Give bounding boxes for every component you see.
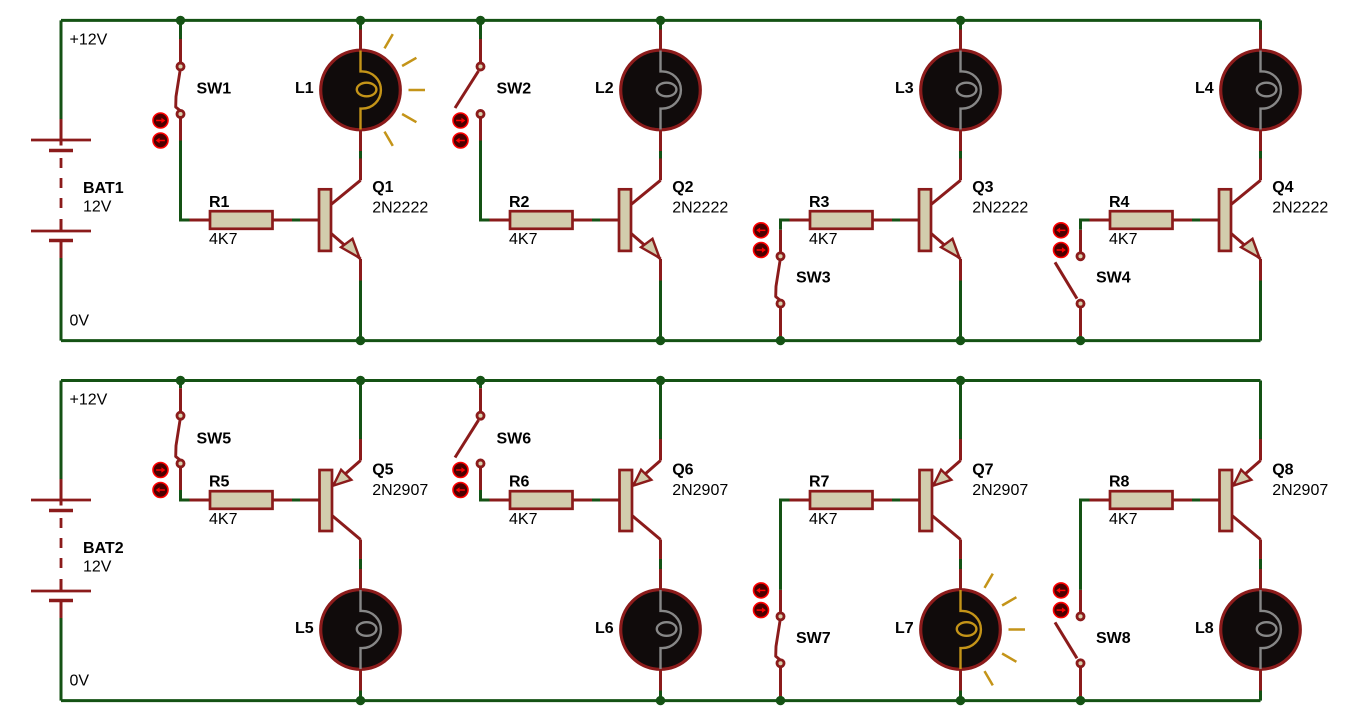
wire Q6 collector to lamp	[659, 559, 662, 569]
transistor Q4 collector lead	[1231, 180, 1261, 204]
switch SW3 terminal 2	[777, 300, 784, 307]
wire resistor to SW3	[781, 220, 790, 230]
transistor Q8 collector pin	[1259, 540, 1262, 560]
label Q6 value 2N2907	[672, 482, 728, 499]
label Q5 value 2N2907	[372, 482, 428, 499]
svg-text:SW6: SW6	[497, 430, 532, 447]
transistor Q3 base bar	[919, 189, 931, 251]
lamp L8 pin 2	[1259, 670, 1262, 691]
lamp L2 pin 2	[659, 130, 662, 151]
resistor R5 pin 1	[190, 499, 211, 502]
label SW7	[796, 630, 831, 647]
label 0V	[70, 313, 90, 330]
wire Q8 collector to lamp	[1259, 559, 1262, 569]
transistor Q3 emitter pin	[959, 259, 962, 281]
label Q1	[372, 179, 393, 196]
svg-text:L1: L1	[295, 80, 314, 97]
transistor Q6 base bar	[620, 470, 633, 531]
label R2 value 4K7	[509, 231, 538, 248]
push button SW6 up	[453, 463, 468, 478]
wire 0V rail (bottom circuit)	[61, 699, 1261, 702]
switch SW8 lever	[1055, 622, 1077, 658]
transistor Q7 collector pin	[959, 540, 962, 560]
svg-text:Q3: Q3	[972, 179, 993, 196]
svg-text:Q1: Q1	[372, 179, 393, 196]
wire L4 to collector	[1259, 151, 1262, 159]
resistor R1 pin 1	[190, 219, 211, 222]
label R8	[1109, 473, 1130, 490]
wire R8 to transistor base	[1192, 499, 1202, 502]
switch SW6 terminal 2	[477, 460, 484, 467]
switch SW7 lever	[776, 621, 780, 660]
label R7	[809, 473, 830, 490]
lamp L1 light rays	[385, 34, 426, 146]
svg-text:+12V: +12V	[70, 31, 108, 48]
push button SW7 up	[754, 583, 769, 598]
lamp L7 light rays	[985, 574, 1026, 686]
node L3 rail junction	[956, 16, 965, 25]
wire SW6 to resistor	[481, 490, 490, 500]
transistor Q4 emitter arrow	[1241, 239, 1260, 258]
wire Q4 emitter to 0V	[1259, 281, 1262, 341]
svg-text:12V: 12V	[83, 199, 112, 216]
switch SW2 lever	[455, 71, 479, 108]
label SW3	[796, 270, 831, 287]
transistor Q7 base pin	[900, 499, 920, 502]
svg-text:2N2907: 2N2907	[972, 482, 1028, 499]
node SW8 bottom rail junction	[1076, 696, 1085, 705]
resistor R1 pin 2	[273, 219, 293, 222]
transistor Q7 emitter lead	[932, 461, 961, 486]
lamp L3 pin 2	[959, 130, 962, 151]
svg-text:R7: R7	[809, 473, 830, 490]
transistor Q5 collector pin	[359, 540, 362, 560]
label Q1 value 2N2222	[372, 200, 428, 217]
wire rail to SW5	[179, 381, 182, 389]
lamp L3	[921, 50, 1001, 130]
node Q6 emitter rail junction	[656, 376, 665, 385]
label R6 value 4K7	[509, 511, 538, 528]
transistor Q2 collector pin	[659, 159, 662, 181]
label Q3	[972, 179, 993, 196]
wire L2 to collector	[659, 151, 662, 159]
transistor Q4 collector pin	[1259, 159, 1262, 181]
svg-text:2N2222: 2N2222	[672, 200, 728, 217]
transistor Q3 emitter lead	[931, 233, 961, 259]
label R2	[509, 194, 530, 211]
transistor Q1 emitter lead	[331, 233, 361, 259]
node SW2 top rail junction	[476, 16, 485, 25]
wire Q5 collector to lamp	[359, 559, 362, 569]
transistor Q7 collector lead	[932, 516, 961, 540]
label BAT1 value 12V	[83, 199, 112, 216]
lamp L5 pin 2	[359, 670, 362, 691]
label SW1	[197, 80, 232, 97]
node Q1 emitter rail junction	[356, 336, 365, 345]
label Q2 value 2N2222	[672, 200, 728, 217]
lamp L4 pin 2	[1259, 130, 1262, 151]
svg-text:L3: L3	[895, 80, 914, 97]
transistor Q7 emitter pin	[959, 439, 962, 461]
label Q8	[1272, 462, 1293, 479]
label R7 value 4K7	[809, 511, 838, 528]
label Q2	[672, 179, 693, 196]
node SW4 bottom rail junction	[1076, 336, 1085, 345]
wire R5 to transistor base	[292, 499, 302, 502]
switch SW5 terminal 1	[177, 412, 184, 419]
transistor Q7 emitter arrow	[933, 470, 951, 486]
svg-text:R4: R4	[1109, 194, 1130, 211]
label BAT2	[83, 540, 124, 557]
node L2 rail junction	[656, 16, 665, 25]
transistor Q5 collector lead	[332, 516, 361, 540]
push button SW8 down	[1054, 603, 1069, 618]
resistor R8 pin 1	[1090, 499, 1111, 502]
wire 0V rail (top circuit)	[61, 339, 1261, 342]
resistor R2 pin 2	[573, 219, 593, 222]
svg-text:R2: R2	[509, 194, 530, 211]
wire rail to L3	[959, 20, 962, 29]
resistor R2	[510, 211, 573, 229]
resistor R3	[810, 211, 873, 229]
svg-text:+12V: +12V	[70, 391, 108, 408]
label SW8	[1096, 630, 1131, 647]
svg-text:SW7: SW7	[796, 630, 831, 647]
label L2	[595, 80, 614, 97]
label Q8 value 2N2907	[1272, 482, 1328, 499]
push button SW7 down	[754, 603, 769, 618]
label Q6	[672, 462, 693, 479]
label SW5	[197, 430, 232, 447]
push button SW5 up	[153, 463, 168, 478]
label R8 value 4K7	[1109, 511, 1138, 528]
label Q4	[1272, 179, 1293, 196]
resistor R4 pin 2	[1173, 219, 1193, 222]
lamp L1	[321, 50, 401, 130]
node SW3 bottom rail junction	[776, 336, 785, 345]
transistor Q6 collector pin	[659, 540, 662, 560]
svg-text:2N2907: 2N2907	[672, 482, 728, 499]
svg-text:BAT1: BAT1	[83, 180, 124, 197]
label L7	[895, 620, 914, 637]
switch SW5 terminal 2	[177, 460, 184, 467]
transistor Q1 base pin	[300, 219, 319, 222]
wire rail to SW6	[479, 381, 482, 389]
switch SW4 terminal 2	[1077, 300, 1084, 307]
label L3	[895, 80, 914, 97]
wire SW2 to resistor	[481, 141, 490, 221]
switch SW8 pin 2	[1079, 668, 1082, 697]
transistor Q3 emitter arrow	[941, 239, 960, 258]
svg-text:2N2907: 2N2907	[372, 482, 428, 499]
transistor Q5 base bar	[320, 470, 333, 531]
label L4	[1195, 80, 1214, 97]
switch SW6 terminal 1	[477, 412, 484, 419]
push button SW3 down	[754, 243, 769, 258]
wire +12V rail (top circuit)	[61, 19, 1261, 22]
label R5 value 4K7	[209, 511, 238, 528]
label R3	[809, 194, 830, 211]
push button SW6 down	[453, 483, 468, 498]
transistor Q3 collector pin	[959, 159, 962, 181]
svg-text:4K7: 4K7	[509, 511, 538, 528]
label Q7	[972, 462, 993, 479]
wire rail to SW1	[179, 20, 182, 39]
resistor R8 pin 2	[1173, 499, 1193, 502]
switch SW2 pin 2	[479, 119, 482, 141]
lamp L4	[1221, 50, 1301, 130]
push button SW4 down	[1054, 243, 1069, 258]
node L7 rail junction	[956, 696, 965, 705]
switch SW6 pin 1	[479, 388, 482, 411]
battery BAT1	[31, 20, 91, 340]
wire Q1 emitter to 0V	[359, 281, 362, 341]
label +12V	[70, 31, 108, 48]
node Q7 emitter rail junction	[956, 376, 965, 385]
switch SW3 pin 1	[779, 230, 782, 252]
transistor Q4 base bar	[1219, 189, 1231, 251]
svg-text:4K7: 4K7	[1109, 231, 1138, 248]
wire SW1 to resistor	[181, 141, 190, 221]
label R4	[1109, 194, 1130, 211]
lamp L6 pin 2	[659, 670, 662, 691]
label R3 value 4K7	[809, 231, 838, 248]
lamp L7 pin 1	[959, 569, 962, 590]
switch SW3 terminal 1	[777, 253, 784, 260]
svg-text:SW4: SW4	[1096, 270, 1131, 287]
label 0V (bottom)	[70, 673, 90, 690]
transistor Q6 collector lead	[632, 516, 661, 540]
label R4 value 4K7	[1109, 231, 1138, 248]
svg-text:L5: L5	[295, 620, 314, 637]
switch SW7 terminal 2	[777, 660, 784, 667]
transistor Q8 emitter lead	[1232, 461, 1261, 486]
svg-text:BAT2: BAT2	[83, 540, 124, 557]
transistor Q2 emitter arrow	[641, 239, 660, 258]
transistor Q1 collector lead	[331, 180, 361, 204]
resistor R5 pin 2	[273, 499, 293, 502]
svg-text:2N2222: 2N2222	[1272, 200, 1328, 217]
switch SW4 pin 2	[1079, 308, 1082, 337]
push button SW5 down	[153, 483, 168, 498]
transistor Q2 base bar	[619, 189, 631, 251]
push button SW1 down	[153, 133, 168, 148]
transistor Q2 emitter lead	[631, 233, 661, 259]
switch SW7 pin 2	[779, 668, 782, 697]
switch SW5 pin 1	[179, 388, 182, 411]
switch SW4 pin 1	[1079, 230, 1082, 252]
svg-text:SW8: SW8	[1096, 630, 1131, 647]
label L5	[295, 620, 314, 637]
svg-text:Q6: Q6	[672, 462, 693, 479]
label L6	[595, 620, 614, 637]
lamp L7	[921, 590, 1001, 670]
label L8	[1195, 620, 1214, 637]
wire R1 to transistor base	[292, 219, 302, 222]
wire +12V to Q7 emitter	[959, 381, 962, 440]
resistor R2 pin 1	[490, 219, 511, 222]
svg-text:Q5: Q5	[372, 462, 393, 479]
svg-text:12V: 12V	[83, 559, 112, 576]
resistor R6	[510, 491, 573, 509]
transistor Q5 base pin	[300, 499, 320, 502]
svg-text:Q8: Q8	[1272, 462, 1293, 479]
wire L8 to 0V	[1259, 691, 1262, 701]
transistor Q8 base bar	[1220, 470, 1233, 531]
label R6	[509, 473, 530, 490]
transistor Q1 base bar	[319, 189, 331, 251]
svg-text:SW1: SW1	[197, 80, 232, 97]
svg-text:2N2222: 2N2222	[372, 200, 428, 217]
svg-text:Q4: Q4	[1272, 179, 1293, 196]
resistor R7	[810, 491, 873, 509]
wire rail to L4	[1259, 20, 1262, 29]
svg-text:2N2222: 2N2222	[972, 200, 1028, 217]
svg-text:R5: R5	[209, 473, 230, 490]
switch SW1 terminal 2	[177, 111, 184, 118]
transistor Q2 collector lead	[631, 180, 661, 204]
transistor Q5 emitter arrow	[333, 470, 351, 486]
wire Q3 emitter to 0V	[959, 281, 962, 341]
wire resistor to SW4	[1081, 220, 1090, 230]
lamp L1 pin 1	[359, 30, 362, 51]
transistor Q7 base bar	[920, 470, 933, 531]
switch SW3 lever	[776, 261, 780, 300]
push button SW8 up	[1054, 583, 1069, 598]
switch SW1 pin 2	[179, 119, 182, 141]
lamp L8 pin 1	[1259, 569, 1262, 590]
transistor Q5 emitter pin	[359, 439, 362, 461]
node SW5 top rail junction	[176, 376, 185, 385]
label L1	[295, 80, 314, 97]
svg-text:0V: 0V	[70, 313, 90, 330]
switch SW1 terminal 1	[177, 63, 184, 70]
transistor Q8 emitter arrow	[1233, 470, 1251, 486]
node SW7 bottom rail junction	[776, 696, 785, 705]
transistor Q4 emitter lead	[1231, 233, 1261, 259]
lamp L4 pin 1	[1259, 30, 1262, 51]
wire SW5 to resistor	[181, 490, 190, 500]
svg-text:4K7: 4K7	[809, 231, 838, 248]
lamp L5 pin 1	[359, 569, 362, 590]
svg-text:SW2: SW2	[497, 80, 532, 97]
lamp L2	[621, 50, 701, 130]
resistor R6 pin 2	[573, 499, 593, 502]
svg-text:0V: 0V	[70, 673, 90, 690]
label Q5	[372, 462, 393, 479]
wire rail to L2	[659, 20, 662, 29]
transistor Q4 emitter pin	[1259, 259, 1262, 281]
lamp L2 pin 1	[659, 30, 662, 51]
push button SW2 down	[453, 133, 468, 148]
svg-text:Q7: Q7	[972, 462, 993, 479]
svg-text:L6: L6	[595, 620, 614, 637]
resistor R7 pin 1	[790, 499, 811, 502]
wire R6 to transistor base	[592, 499, 602, 502]
lamp L6 pin 1	[659, 569, 662, 590]
transistor Q6 emitter lead	[632, 461, 661, 486]
resistor R8	[1110, 491, 1173, 509]
transistor Q3 base pin	[900, 219, 919, 222]
svg-text:2N2907: 2N2907	[1272, 482, 1328, 499]
switch SW2 terminal 1	[477, 63, 484, 70]
svg-text:L8: L8	[1195, 620, 1214, 637]
transistor Q8 collector lead	[1232, 516, 1261, 540]
label SW4	[1096, 270, 1131, 287]
node L6 rail junction	[656, 696, 665, 705]
svg-text:Q2: Q2	[672, 179, 693, 196]
switch SW1 lever	[176, 71, 180, 111]
switch SW2 terminal 2	[477, 111, 484, 118]
lamp L1 pin 2	[359, 130, 362, 151]
switch SW5 lever	[176, 420, 180, 460]
switch SW8 terminal 1	[1077, 613, 1084, 620]
label R1	[209, 194, 230, 211]
node L1 rail junction	[356, 16, 365, 25]
svg-text:R1: R1	[209, 194, 230, 211]
wire rail to SW2	[479, 20, 482, 39]
wire R4 to transistor base	[1192, 219, 1202, 222]
resistor R1	[210, 211, 273, 229]
wire rail to L1	[359, 20, 362, 29]
label Q3 value 2N2222	[972, 200, 1028, 217]
transistor Q1 emitter pin	[359, 259, 362, 281]
transistor Q8 base pin	[1200, 499, 1220, 502]
lamp L7 pin 2	[959, 670, 962, 691]
svg-text:4K7: 4K7	[809, 511, 838, 528]
wire L6 to 0V	[659, 691, 662, 701]
svg-text:L4: L4	[1195, 80, 1214, 97]
wire +12V to Q5 emitter	[359, 381, 362, 440]
lamp L5	[321, 590, 401, 670]
push button SW1 up	[153, 113, 168, 128]
svg-text:4K7: 4K7	[509, 231, 538, 248]
resistor R3 pin 2	[873, 219, 893, 222]
lamp L6	[621, 590, 701, 670]
switch SW7 pin 1	[779, 590, 782, 612]
switch SW8 terminal 2	[1077, 660, 1084, 667]
label SW2	[497, 80, 532, 97]
node SW6 top rail junction	[476, 376, 485, 385]
switch SW5 pin 2	[179, 468, 182, 490]
node Q2 emitter rail junction	[656, 336, 665, 345]
transistor Q8 emitter pin	[1259, 439, 1262, 461]
resistor R4	[1110, 211, 1173, 229]
switch SW1 pin 1	[179, 39, 182, 62]
node SW1 top rail junction	[176, 16, 185, 25]
label R5	[209, 473, 230, 490]
wire resistor to SW7	[781, 500, 790, 590]
switch SW4 terminal 1	[1077, 253, 1084, 260]
svg-text:L2: L2	[595, 80, 614, 97]
wire R2 to transistor base	[592, 219, 602, 222]
wire resistor to SW8	[1081, 500, 1090, 590]
wire R7 to transistor base	[892, 499, 902, 502]
wire +12V to Q6 emitter	[659, 381, 662, 440]
label Q7 value 2N2907	[972, 482, 1028, 499]
resistor R7 pin 2	[873, 499, 893, 502]
label +12V (bottom)	[70, 391, 108, 408]
transistor Q1 collector pin	[359, 159, 362, 181]
transistor Q6 emitter pin	[659, 439, 662, 461]
svg-text:SW5: SW5	[197, 430, 232, 447]
label BAT2 value 12V	[83, 559, 112, 576]
transistor Q2 emitter pin	[659, 259, 662, 281]
svg-text:4K7: 4K7	[1109, 511, 1138, 528]
resistor R5	[210, 491, 273, 509]
node Q5 emitter rail junction	[356, 376, 365, 385]
node L5 rail junction	[356, 696, 365, 705]
